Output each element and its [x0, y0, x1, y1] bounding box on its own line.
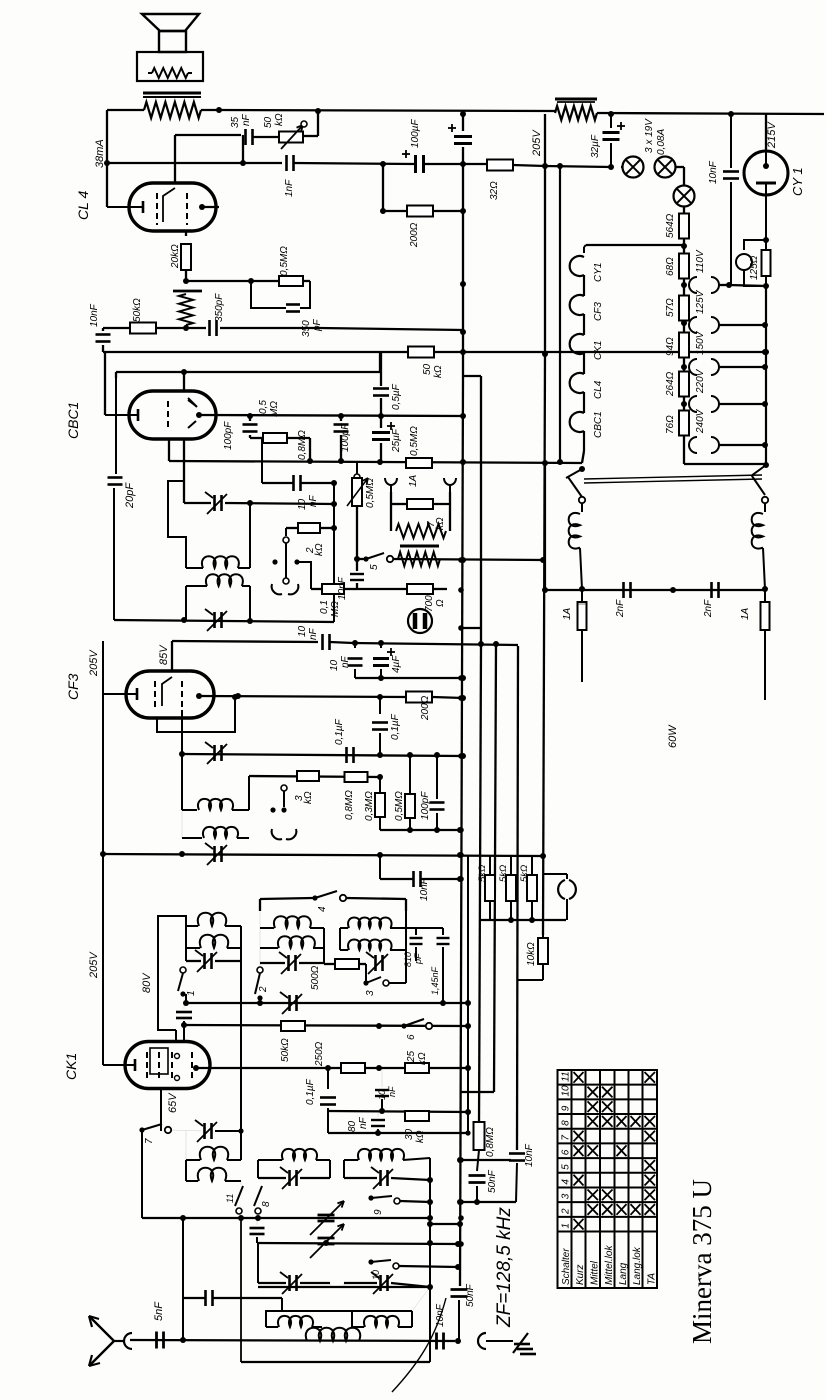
capacitor 50nF bus	[451, 1288, 468, 1291]
svg-text:250Ω: 250Ω	[314, 1041, 325, 1067]
svg-text:nF: nF	[308, 627, 319, 640]
resistor 0,1MOhm	[322, 584, 344, 594]
fuse 1A right	[764, 590, 766, 602]
capacitor 10nF bus	[509, 1152, 525, 1155]
svg-text:11: 11	[225, 1194, 235, 1203]
wire row 830	[380, 829, 460, 831]
resistor 0,8MOhm	[263, 433, 287, 443]
svg-text:1A: 1A	[408, 474, 419, 487]
resistor 32Ohm	[487, 160, 513, 171]
capacitor 1nF	[285, 155, 288, 171]
svg-text:2: 2	[561, 1208, 572, 1215]
resistor 50kOhm rail	[408, 347, 434, 358]
trimmer osc C	[379, 1170, 382, 1186]
svg-text:10nF: 10nF	[419, 877, 430, 901]
resistor 250Ohm	[341, 1063, 365, 1073]
hum balance zigzag	[390, 504, 392, 531]
capacitor 20pF	[115, 378, 117, 474]
capacitor 100pF drop	[250, 437, 262, 439]
svg-text:CL 4: CL 4	[75, 190, 91, 220]
svg-text:1: 1	[186, 990, 197, 996]
switch 11	[240, 1181, 242, 1185]
trimmer osc D	[288, 1275, 291, 1291]
svg-text:3 x 19V: 3 x 19V	[644, 118, 655, 153]
svg-text:nF: nF	[340, 655, 351, 668]
tube CBC1	[129, 391, 216, 439]
switch 7	[139, 1127, 144, 1132]
wire CBC1 grid branch	[183, 439, 185, 503]
capacitor 25uF electrolytic	[380, 416, 382, 428]
IF1 secondary coil	[206, 574, 243, 586]
resistor 25kOhm	[405, 1063, 429, 1073]
resistor 57Ohm	[679, 296, 689, 321]
svg-text:205V: 205V	[88, 951, 100, 979]
svg-text:38mA: 38mA	[94, 139, 106, 168]
wire row 1025	[184, 1025, 468, 1026]
svg-text:10nF: 10nF	[708, 160, 719, 184]
trimmer IF1 bottom	[213, 612, 216, 628]
svg-text:nF: nF	[358, 1116, 369, 1129]
capacitor 100pF v	[430, 801, 445, 804]
trimmer 1	[203, 953, 206, 969]
tap 110V	[689, 277, 697, 293]
wire CL4 anode feed	[106, 110, 108, 207]
svg-text:65V: 65V	[167, 1092, 179, 1113]
switch 10	[368, 1259, 373, 1264]
svg-text:100µF: 100µF	[410, 119, 421, 148]
svg-text:810: 810	[403, 952, 413, 967]
resistor 0,5MOhm series	[406, 458, 432, 468]
wire 80V feed	[158, 916, 186, 1030]
wire 35nF to rail	[242, 135, 244, 163]
svg-text:2nF: 2nF	[703, 599, 714, 618]
switch 4	[312, 895, 317, 900]
wire bus x496	[494, 644, 496, 1092]
fuse 1A left	[581, 590, 583, 602]
switch contact	[281, 785, 287, 791]
switch 9	[368, 1195, 373, 1200]
svg-text:TA: TA	[646, 1273, 657, 1285]
resistor 564Ohm	[679, 214, 689, 239]
wire bus x462 mid	[462, 352, 464, 376]
wire row 1003	[186, 1002, 468, 1004]
coil B2	[260, 947, 278, 949]
svg-text:0,5MΩ: 0,5MΩ	[279, 246, 290, 276]
svg-text:125Ω: 125Ω	[749, 255, 760, 280]
capacitor 350pF series	[208, 320, 211, 336]
svg-text:50: 50	[422, 363, 433, 375]
svg-text:0,8MΩ: 0,8MΩ	[485, 1127, 496, 1157]
wire x241	[240, 1218, 242, 1362]
wire row 628 stub	[461, 627, 481, 629]
svg-text:10: 10	[297, 498, 308, 510]
svg-text:264Ω: 264Ω	[665, 371, 676, 397]
svg-text:20pF: 20pF	[124, 482, 136, 509]
table X marks	[574, 1072, 656, 1230]
svg-text:pF: pF	[312, 318, 323, 332]
svg-text:240V: 240V	[695, 408, 706, 434]
transformer core	[143, 92, 201, 95]
mains switch right	[751, 465, 766, 476]
svg-text:CL4: CL4	[593, 380, 604, 399]
svg-text:Minerva 375 U: Minerva 375 U	[687, 1179, 717, 1344]
capacitor 0,1uF series	[345, 747, 348, 763]
wire bus x430	[429, 1158, 431, 1362]
svg-text:32µF: 32µF	[590, 134, 601, 158]
svg-text:1nF: 1nF	[284, 179, 295, 197]
svg-text:94Ω: 94Ω	[665, 337, 676, 356]
svg-text:25: 25	[406, 1050, 417, 1063]
svg-text:kΩ: kΩ	[274, 113, 285, 126]
capacitor 80nF	[371, 1119, 385, 1121]
svg-text:Lang.lok: Lang.lok	[632, 1246, 643, 1285]
wire cathode left	[104, 352, 106, 415]
svg-text:0,5MΩ: 0,5MΩ	[394, 791, 405, 821]
svg-text:5: 5	[561, 1164, 572, 1170]
svg-text:10nF: 10nF	[524, 1143, 535, 1167]
svg-text:CY 1: CY 1	[790, 167, 805, 196]
output transformer primary	[144, 102, 201, 118]
wire row 281	[186, 280, 280, 282]
wire row 644	[353, 643, 518, 645]
wire selector vertical	[765, 286, 767, 465]
svg-text:10nF: 10nF	[337, 576, 348, 600]
resistor 0,8MOhm	[345, 772, 368, 782]
svg-text:0,3MΩ: 0,3MΩ	[364, 791, 375, 821]
capacitor 10nF AVC	[350, 573, 364, 575]
osc coil A1	[186, 1159, 200, 1161]
svg-text:1: 1	[561, 1223, 572, 1229]
svg-text:68Ω: 68Ω	[665, 257, 676, 276]
potentiometer zigzag	[398, 552, 440, 566]
svg-text:564Ω: 564Ω	[665, 213, 676, 238]
wire row 920	[480, 919, 566, 921]
jack	[558, 880, 565, 899]
capacitor 10nF screen	[354, 643, 356, 648]
osc coil A2	[186, 1180, 198, 1182]
trimmer IF3 top	[213, 745, 216, 761]
svg-text:3: 3	[561, 1193, 572, 1199]
svg-text:kΩ: kΩ	[417, 1052, 428, 1065]
wire CK1 grid to row 1131	[160, 1088, 162, 1131]
mains switch left	[566, 469, 582, 478]
capacitor 0,1uF osc	[327, 1068, 329, 1089]
wire	[107, 109, 144, 111]
wire	[683, 246, 685, 253]
trimmer 2	[287, 955, 290, 971]
resistor 3kOhm	[297, 771, 319, 781]
svg-text:10kΩ: 10kΩ	[526, 942, 537, 966]
wire grid down	[181, 710, 183, 810]
svg-text:215V: 215V	[766, 121, 778, 149]
resistor 0,5MOhm v	[405, 794, 415, 818]
CK1 anode	[193, 1065, 199, 1071]
svg-text:4µF: 4µF	[391, 655, 402, 673]
svg-text:9: 9	[561, 1105, 572, 1111]
capacitor 350pF (right)	[251, 281, 286, 308]
capacitor 10nF series grid	[292, 475, 295, 491]
svg-text:0,5µF: 0,5µF	[391, 383, 402, 410]
switch 2	[257, 967, 263, 973]
trimmer IF1 top	[213, 495, 216, 511]
svg-text:220V: 220V	[695, 368, 706, 394]
svg-text:0,1: 0,1	[319, 600, 330, 614]
svg-text:200Ω: 200Ω	[420, 695, 431, 721]
svg-text:100pF: 100pF	[420, 791, 431, 820]
switch 6	[401, 1023, 406, 1028]
wire B+ rail 352	[103, 351, 765, 353]
resistor 0,5MOhm	[279, 276, 303, 286]
wire heater bottom	[582, 451, 584, 463]
svg-text:0,1µF: 0,1µF	[390, 713, 401, 740]
heater hooks 1A	[385, 478, 397, 485]
wire	[382, 164, 384, 211]
resistor 68Ohm	[679, 254, 689, 279]
tube CF3	[126, 671, 214, 718]
CF3 grid dashes	[154, 681, 156, 710]
svg-text:25µF: 25µF	[391, 428, 402, 453]
svg-text:5kΩ: 5kΩ	[498, 865, 509, 882]
antenna coil A1	[186, 925, 198, 927]
volume potentiometer 50k with bar	[173, 290, 202, 293]
capacitor 50nF	[469, 1174, 486, 1177]
svg-text:4: 4	[561, 1179, 572, 1185]
svg-text:5: 5	[369, 564, 380, 570]
capacitor 0,1uF	[379, 697, 381, 714]
wire x241 mid	[240, 961, 242, 1131]
svg-text:CF3: CF3	[593, 302, 604, 321]
wire	[303, 135, 318, 137]
svg-text:350pF: 350pF	[214, 293, 225, 322]
resistor 5kOhm 3	[527, 875, 537, 901]
resistor 200Ohm anode	[406, 692, 432, 703]
lamp 2	[655, 157, 676, 178]
svg-text:nF: nF	[241, 113, 252, 126]
wire	[297, 562, 311, 589]
capacitor 10nF bottom	[435, 1333, 438, 1350]
svg-text:50kΩ: 50kΩ	[280, 1038, 291, 1062]
CBC1 grid dash	[167, 401, 169, 430]
wire row 620	[114, 620, 334, 622]
bus junction dots	[458, 557, 464, 563]
capacitor 35nF	[244, 129, 247, 145]
wire selector bottom	[683, 445, 685, 464]
resistor 264Ohm	[679, 372, 689, 397]
svg-text:kΩ: kΩ	[303, 791, 314, 804]
CF3 screen loop	[157, 698, 235, 732]
resistor 10kOhm	[538, 938, 548, 964]
bar	[400, 545, 439, 548]
wire row 1202	[460, 1201, 516, 1203]
svg-text:205V: 205V	[531, 129, 543, 157]
svg-text:1A: 1A	[740, 607, 751, 620]
capacitor 2nF right	[710, 582, 713, 598]
switch wafer arcs IF1	[272, 584, 282, 594]
svg-text:100pF: 100pF	[223, 421, 234, 450]
capacitor 2nF left	[622, 582, 625, 598]
mains coil right	[764, 503, 766, 512]
svg-text:nF: nF	[308, 494, 319, 507]
resistor 30kOhm	[405, 1111, 429, 1121]
wire CY1 cathode	[765, 183, 767, 240]
wire x334	[333, 483, 335, 622]
magic eye indicator	[408, 609, 432, 633]
capacitor 10nF series	[321, 634, 324, 650]
svg-text:5kΩ: 5kΩ	[477, 865, 488, 882]
lamp 1	[623, 157, 644, 178]
wire row 1362	[241, 1361, 430, 1363]
svg-text:CBC1: CBC1	[593, 411, 604, 438]
switch wafer arcs	[272, 829, 282, 839]
resistor 94Ohm	[679, 333, 689, 358]
svg-text:6: 6	[406, 1034, 417, 1040]
tap 220V	[689, 396, 697, 412]
wire 205V screen feed x560	[559, 166, 561, 462]
svg-text:0,1µF: 0,1µF	[334, 718, 345, 745]
tube CK1	[125, 1042, 210, 1089]
wire row 776	[249, 776, 380, 777]
svg-text:5nF: 5nF	[153, 1301, 165, 1321]
wire row 461	[169, 461, 582, 463]
svg-text:0,5MΩ: 0,5MΩ	[409, 426, 420, 456]
speaker field coil box	[137, 52, 203, 81]
IF transformer 3 secondary	[182, 837, 202, 839]
svg-text:Lang: Lang	[618, 1262, 629, 1285]
wire row 1133	[328, 1132, 468, 1134]
capacitor series x257	[250, 1227, 265, 1230]
svg-text:205V: 205V	[88, 649, 100, 677]
svg-text:Ω: Ω	[435, 599, 446, 607]
resistor 0,3MOhm	[375, 793, 385, 817]
wire bus x462	[462, 164, 464, 352]
capacitor osc grid	[176, 1011, 192, 1014]
svg-text:500Ω: 500Ω	[310, 965, 321, 990]
osc coil B1	[258, 1159, 282, 1161]
switch 1	[180, 967, 186, 973]
resistor 500Ohm	[335, 959, 359, 969]
capacitor 10nF CY1	[730, 114, 732, 168]
svg-text:50nF: 50nF	[465, 1283, 476, 1307]
resistor 20kOhm	[181, 244, 191, 270]
svg-text:7: 7	[144, 1138, 155, 1144]
wire bus x479	[480, 376, 482, 644]
svg-text:30: 30	[404, 1128, 415, 1140]
svg-text:100pF: 100pF	[340, 423, 351, 452]
CL4 grid dashes	[156, 193, 158, 225]
svg-text:CK1: CK1	[593, 341, 604, 360]
potentiometer 0,5MOhm AVC	[356, 463, 358, 474]
wire	[185, 231, 187, 236]
wire	[729, 285, 766, 286]
IF transformer 3 primary	[182, 809, 197, 811]
svg-text:10: 10	[561, 1085, 572, 1097]
resistor 50kOhm	[130, 323, 156, 334]
coil C2	[340, 949, 348, 951]
CF3 cathode	[136, 688, 139, 700]
antenna coil A2	[186, 947, 200, 949]
osc coil bottom 2	[352, 1326, 364, 1328]
osc padder cap	[204, 1290, 207, 1306]
svg-text:Schalter: Schalter	[561, 1248, 572, 1285]
trimmer 3	[374, 955, 377, 971]
rectifier CY1	[744, 151, 788, 195]
resistor 7kOhm	[407, 499, 433, 509]
svg-text:CK1: CK1	[63, 1053, 79, 1080]
wire row 1111	[328, 1111, 468, 1112]
capacitor 5nF antenna	[155, 1332, 158, 1349]
svg-text:CY1: CY1	[593, 263, 604, 282]
tube CL4	[129, 183, 216, 231]
svg-text:125V: 125V	[695, 289, 706, 314]
svg-text:1A: 1A	[562, 607, 573, 620]
CBC1 cathode	[137, 409, 140, 421]
svg-text:80V: 80V	[141, 972, 153, 993]
wire mains rail	[545, 589, 765, 591]
CK1 cathode	[134, 1059, 137, 1071]
svg-text:76Ω: 76Ω	[665, 415, 676, 434]
svg-text:35: 35	[230, 116, 241, 128]
resistor 50kOhm osc	[281, 1021, 305, 1031]
svg-text:0,1µF: 0,1µF	[305, 1078, 316, 1105]
svg-text:10: 10	[329, 659, 340, 671]
svg-text:2nF: 2nF	[615, 599, 626, 618]
svg-text:0,08A: 0,08A	[656, 129, 667, 155]
wire top rail right	[597, 113, 824, 114]
wire row 559	[393, 559, 543, 560]
trimmer IF3 bottom	[213, 846, 216, 862]
svg-text:32Ω: 32Ω	[489, 181, 500, 200]
loudspeaker	[142, 14, 199, 31]
coil B1	[260, 927, 274, 929]
svg-text:57Ω: 57Ω	[665, 298, 676, 317]
svg-text:8: 8	[261, 1201, 272, 1207]
trimmer osc	[203, 1123, 206, 1139]
capacitor 4uF electrolytic	[380, 643, 382, 648]
CK1 grids	[146, 1052, 148, 1078]
resistor 5kOhm 2	[506, 875, 516, 901]
capacitor 0,5uF	[380, 352, 382, 386]
svg-text:50: 50	[263, 116, 274, 128]
CL4 anode dot	[199, 204, 205, 210]
coil C1	[340, 927, 348, 929]
svg-text:CBC1: CBC1	[65, 402, 81, 439]
switch contact column	[285, 528, 287, 536]
potentiometer 50kOhm	[279, 132, 303, 143]
capacitor 810pF	[410, 937, 423, 939]
svg-text:Mittel: Mittel	[589, 1260, 600, 1285]
svg-text:10nF: 10nF	[89, 303, 100, 327]
svg-text:0,5: 0,5	[258, 400, 269, 414]
svg-text:80: 80	[347, 1120, 358, 1132]
resistor 2kOhm	[298, 523, 320, 533]
svg-text:150V: 150V	[695, 330, 706, 355]
switch 8	[254, 1186, 262, 1206]
svg-text:8: 8	[561, 1120, 572, 1126]
antenna coil	[300, 1339, 307, 1341]
wire heater top	[586, 244, 684, 246]
tuning gang	[318, 1214, 335, 1217]
capacitor 100uF reservoir	[462, 114, 464, 131]
mains transformer winding	[555, 98, 597, 101]
wire CF3 grid row	[172, 641, 318, 642]
wire 205V left	[102, 641, 104, 1065]
wire row 755	[182, 754, 463, 756]
svg-text:110V: 110V	[695, 249, 706, 273]
heater chain	[583, 247, 585, 253]
lamp 3	[674, 186, 695, 207]
svg-text:4: 4	[317, 906, 328, 912]
surge network 125Ohm	[744, 240, 766, 250]
